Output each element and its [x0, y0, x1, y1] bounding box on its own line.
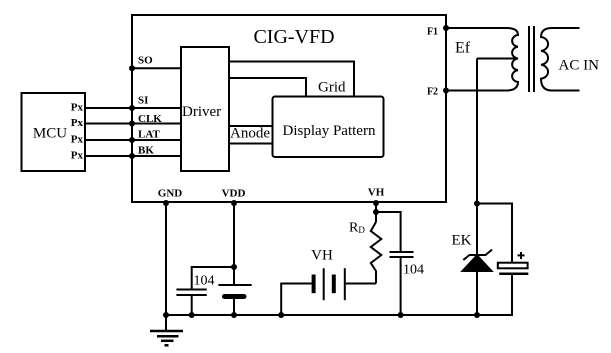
wire grid lower — [229, 78, 306, 97]
battery BT1 VH — [314, 268, 345, 300]
capacitor C3 104 plate bottom — [390, 256, 414, 258]
node CLK dot — [129, 121, 135, 127]
node VH dot — [373, 200, 379, 206]
CIG-VFD main block — [132, 15, 446, 202]
capacitor C2 electrolytic plate bottom thick — [225, 294, 245, 299]
svg-text:Driver: Driver — [182, 104, 221, 120]
svg-text:EK: EK — [452, 233, 472, 249]
node VDD cap branch dot — [231, 264, 237, 270]
transformer tap wire — [477, 58, 518, 60]
transformer core — [529, 26, 534, 92]
svg-text:SO: SO — [138, 55, 153, 67]
node BK dot — [129, 153, 135, 159]
transformer secondary winding AC IN — [541, 28, 580, 91]
node SO dot — [129, 65, 135, 71]
svg-text:VH: VH — [368, 187, 385, 199]
svg-text:CIG-VFD: CIG-VFD — [253, 26, 334, 48]
svg-text:Px: Px — [71, 102, 84, 114]
svg-text:GND: GND — [158, 188, 183, 200]
resistor RD zigzag — [371, 222, 382, 284]
svg-text:F1: F1 — [427, 27, 438, 38]
driver block U1 — [181, 47, 229, 171]
wire LAT MCU to Driver — [85, 139, 181, 141]
svg-text:MCU: MCU — [33, 126, 67, 142]
ground symbol — [150, 315, 183, 345]
node F1 dot — [443, 25, 449, 31]
svg-text:LAT: LAT — [138, 129, 160, 141]
node F2 dot — [443, 88, 449, 94]
node VH branch dot — [373, 209, 379, 215]
node VDD dot — [231, 200, 237, 206]
svg-text:Px: Px — [71, 150, 84, 162]
svg-text:VH: VH — [311, 248, 333, 264]
rail dot battery — [278, 312, 284, 318]
wire SO — [132, 67, 181, 69]
transformer primary winding Ef — [446, 28, 518, 91]
rail dot EK — [474, 312, 480, 318]
wire battery left lead — [281, 284, 311, 316]
svg-text:104: 104 — [403, 263, 424, 278]
svg-text:AC IN: AC IN — [559, 58, 600, 74]
capacitor C4 electrolytic top plate — [498, 263, 528, 269]
node GND dot — [163, 200, 169, 206]
wire anode lower — [229, 143, 273, 145]
svg-text:Px: Px — [71, 117, 84, 129]
rail dot GND — [163, 312, 169, 318]
capacitor C3 104 plate top — [390, 251, 414, 253]
svg-text:Anode: Anode — [230, 126, 270, 142]
plus sign C4 — [518, 252, 525, 259]
ground rail — [166, 314, 513, 316]
rail dot C1 — [189, 312, 195, 318]
zener diode EK triangle — [463, 256, 492, 272]
zener diode EK bar — [463, 250, 492, 260]
node EK top dot — [474, 201, 480, 207]
wire VH branch to C3 — [376, 212, 401, 251]
svg-text:CLK: CLK — [138, 113, 162, 125]
wire VDD cap to rail — [233, 298, 235, 315]
svg-text:BK: BK — [138, 145, 154, 157]
svg-text:Px: Px — [71, 134, 84, 146]
wire CLK MCU to Driver — [85, 123, 181, 125]
node SI dot — [129, 105, 135, 111]
display pattern block — [273, 97, 384, 158]
rail dot C3 — [398, 312, 404, 318]
capacitor C1 104 plate bottom — [176, 294, 206, 296]
wire C4 to rail — [511, 275, 513, 315]
svg-text:104: 104 — [194, 274, 215, 289]
rail dot C2 — [231, 312, 237, 318]
wire C1 to rail — [191, 295, 193, 315]
MCU block — [22, 93, 86, 171]
wire C3 to rail — [400, 257, 402, 315]
svg-text:Grid: Grid — [318, 80, 346, 96]
wire RD to battery — [346, 283, 376, 285]
svg-text:Ef: Ef — [455, 40, 471, 57]
wire VDD down — [233, 202, 235, 285]
svg-text:SI: SI — [138, 95, 148, 107]
svg-text:F2: F2 — [427, 87, 438, 98]
wire EK branch top — [477, 204, 512, 263]
capacitor C2 electrolytic plate top — [218, 284, 251, 286]
wire SI MCU to Driver — [85, 107, 181, 109]
svg-text:VDD: VDD — [222, 188, 246, 200]
node LAT dot — [129, 137, 135, 143]
svg-text:Display Pattern: Display Pattern — [283, 123, 376, 139]
wire transformer tap vertical — [476, 59, 478, 316]
wire grid upper — [229, 62, 354, 98]
capacitor C1 104 plate top — [176, 289, 206, 291]
wire C1 L-branch — [192, 267, 234, 289]
wire anode upper — [229, 125, 273, 127]
capacitor C4 bottom plate — [499, 272, 528, 275]
wire VH down — [375, 202, 377, 222]
wire BK MCU to Driver — [85, 155, 181, 157]
wire GND down — [165, 202, 167, 315]
